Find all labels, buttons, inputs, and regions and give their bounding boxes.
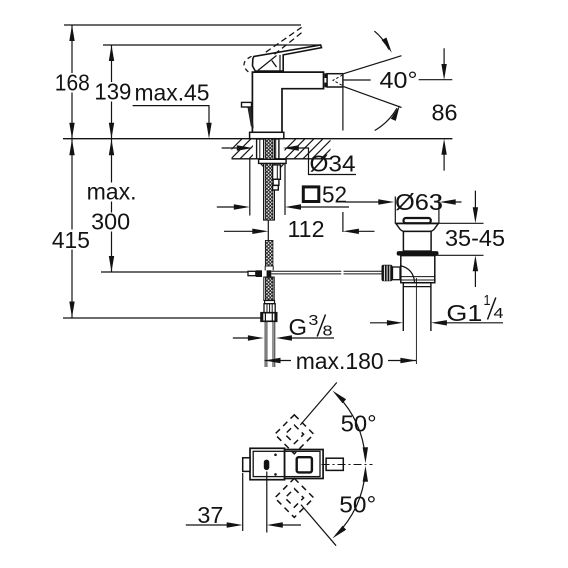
pop-up rod guide fitting — [273, 165, 281, 190]
handle raised position (dashed) — [244, 27, 303, 73]
svg-text:max.45: max.45 — [135, 80, 210, 106]
extension lines top — [63, 25, 321, 318]
svg-text:G1: G1 — [446, 300, 482, 326]
dim dia34 — [222, 148, 356, 175]
drain valve flange — [396, 223, 439, 231]
plan view: handle block — [250, 448, 285, 479]
svg-text:50°: 50° — [339, 492, 376, 518]
plan view: center line — [322, 464, 373, 466]
drain valve body upper — [403, 231, 431, 251]
valve center line — [415, 278, 417, 364]
label sq52 — [303, 187, 319, 202]
mounting flange in deck — [257, 139, 279, 159]
plan view: screw dots — [274, 454, 277, 457]
horizontal pop-up rod — [271, 271, 381, 274]
svg-text:G: G — [289, 314, 308, 340]
plan view: body/spout — [285, 450, 324, 479]
svg-text:415: 415 — [52, 227, 90, 253]
handle 50deg positions (dashed diamonds) — [275, 415, 314, 518]
G3/8 crimp — [264, 304, 275, 313]
plan view: aerator stub — [326, 458, 343, 470]
svg-text:max.: max. — [87, 179, 137, 205]
dim G1 1/4 — [370, 322, 503, 324]
dim arrows 139/max300 — [109, 45, 114, 61]
plan view: inner outline — [253, 451, 320, 476]
svg-text:max.180: max.180 — [296, 348, 384, 374]
svg-text:112: 112 — [288, 216, 325, 242]
plan view: lever pill — [264, 460, 270, 471]
base plate — [250, 132, 284, 138]
tailpipe — [403, 283, 431, 331]
50deg upper diagonal — [300, 383, 337, 426]
G3/8 nut — [261, 313, 277, 322]
dim 86 — [443, 48, 445, 170]
svg-text:168: 168 — [55, 70, 90, 96]
svg-text:35-45: 35-45 — [445, 225, 505, 251]
mounting nut — [259, 159, 287, 163]
wire — [222, 139, 350, 159]
svg-text:4: 4 — [494, 305, 504, 322]
max.45 leader — [133, 106, 209, 126]
svg-text:300: 300 — [91, 208, 130, 234]
dim 35-45 — [432, 223, 484, 255]
drain valve cap — [404, 218, 431, 223]
gasket ring — [397, 251, 439, 256]
svg-text:50°: 50° — [341, 411, 377, 437]
aerator joint — [324, 73, 326, 78]
dim 112 — [268, 87, 343, 240]
svg-text:1: 1 — [484, 292, 491, 309]
aerator — [327, 74, 343, 87]
dim max.180 — [265, 360, 417, 362]
threaded shank with braid — [264, 139, 275, 220]
svg-text:8: 8 — [323, 323, 333, 340]
handle lever — [253, 45, 322, 71]
G3/8 ferrule — [265, 301, 275, 304]
40 deg arc arrows — [374, 31, 389, 49]
plan view: spout square — [297, 457, 312, 472]
outlet pipe — [265, 321, 275, 367]
knurled knob — [382, 265, 393, 282]
dim arrows 168/415 — [69, 25, 74, 41]
pop-up rod tee — [248, 271, 256, 275]
50deg upper arc — [338, 396, 366, 457]
svg-text:3: 3 — [308, 312, 318, 329]
plan view: pop-up tab — [243, 458, 250, 472]
svg-text:52: 52 — [322, 182, 347, 208]
spray cone lines — [344, 56, 453, 108]
wire — [63, 139, 452, 159]
hose below tee — [264, 277, 274, 301]
drain valve body lower — [401, 256, 435, 283]
dim sq52 ext lines — [250, 159, 285, 216]
svg-text:37: 37 — [197, 502, 223, 528]
pop-up rod knob — [242, 102, 252, 107]
svg-text:139: 139 — [94, 79, 131, 105]
dim 37 — [243, 472, 267, 533]
dim dia63 — [395, 197, 439, 224]
50deg lower arc — [338, 472, 366, 533]
svg-text:86: 86 — [432, 99, 458, 125]
50deg lower diagonal — [301, 505, 336, 546]
svg-text:40°: 40° — [380, 67, 418, 93]
flexible hose upper — [265, 241, 273, 267]
faucet body (side view) — [252, 72, 323, 132]
svg-text:Ø63: Ø63 — [395, 189, 443, 215]
dim G3/8 — [233, 337, 334, 339]
svg-text:Ø34: Ø34 — [310, 151, 356, 177]
